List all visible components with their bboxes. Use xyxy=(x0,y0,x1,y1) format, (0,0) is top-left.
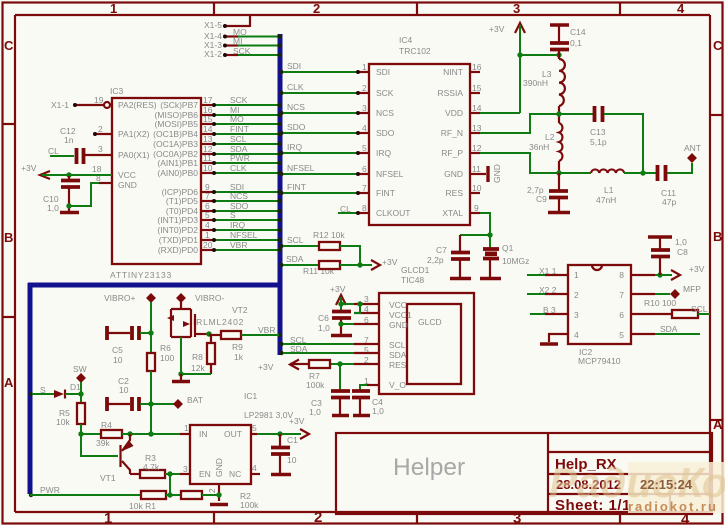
svg-text:390nH: 390nH xyxy=(523,78,548,88)
svg-text:17: 17 xyxy=(203,95,213,105)
svg-text:GND: GND xyxy=(214,458,224,477)
svg-text:FINT: FINT xyxy=(376,188,395,198)
svg-text:1,0: 1,0 xyxy=(318,323,330,333)
svg-text:S: S xyxy=(230,210,236,220)
svg-text:MO: MO xyxy=(230,114,244,124)
svg-text:0,1: 0,1 xyxy=(570,38,582,48)
svg-text:(AIN0)PB0: (AIN0)PB0 xyxy=(157,168,198,178)
svg-text:10: 10 xyxy=(119,385,129,395)
svg-text:EN: EN xyxy=(199,469,211,479)
svg-text:NFSEL: NFSEL xyxy=(376,169,404,179)
svg-text:FINT: FINT xyxy=(230,124,249,134)
svg-text:3: 3 xyxy=(513,510,521,525)
svg-text:3: 3 xyxy=(183,464,188,474)
svg-text:TRC102: TRC102 xyxy=(399,46,431,56)
svg-text:A: A xyxy=(713,417,723,432)
svg-text:2: 2 xyxy=(574,290,579,300)
svg-text:CLK: CLK xyxy=(230,163,247,173)
svg-text:SW: SW xyxy=(73,364,87,374)
svg-text:PA1(X2): PA1(X2) xyxy=(118,129,150,139)
svg-text:SCL: SCL xyxy=(389,340,406,350)
svg-text:(INT0)PD2: (INT0)PD2 xyxy=(157,225,198,235)
svg-text:VBR: VBR xyxy=(258,325,275,335)
svg-text:RF_N: RF_N xyxy=(441,128,463,138)
svg-text:C5: C5 xyxy=(112,345,123,355)
svg-text:NCS: NCS xyxy=(376,108,394,118)
svg-text:X2 2: X2 2 xyxy=(539,285,557,295)
svg-text:SDI: SDI xyxy=(287,61,301,71)
svg-text:TIC48: TIC48 xyxy=(401,275,424,285)
svg-text:L1: L1 xyxy=(604,185,614,195)
svg-text:10MGz: 10MGz xyxy=(502,256,529,266)
svg-text:BAT: BAT xyxy=(187,395,203,405)
svg-text:X1 1: X1 1 xyxy=(539,266,557,276)
svg-text:20: 20 xyxy=(203,240,213,250)
svg-text:3: 3 xyxy=(98,144,103,154)
svg-text:C13: C13 xyxy=(590,127,606,137)
svg-text:(SCk)PB7: (SCk)PB7 xyxy=(160,100,198,110)
svg-text:7: 7 xyxy=(362,183,367,193)
svg-text:(T1)PD5: (T1)PD5 xyxy=(166,196,198,206)
svg-text:Helper: Helper xyxy=(393,454,465,481)
svg-text:C14: C14 xyxy=(570,27,586,37)
svg-text:R4: R4 xyxy=(101,420,112,430)
svg-text:5: 5 xyxy=(252,423,257,433)
svg-text:VCC: VCC xyxy=(389,300,407,310)
svg-text:GLCD: GLCD xyxy=(418,317,442,327)
svg-text:3: 3 xyxy=(574,310,579,320)
svg-text:4: 4 xyxy=(677,1,685,16)
svg-text:SDA: SDA xyxy=(290,344,308,354)
svg-text:5,1p: 5,1p xyxy=(590,137,607,147)
svg-text:1: 1 xyxy=(574,270,579,280)
svg-text:R10 100: R10 100 xyxy=(644,298,676,308)
svg-text:39k: 39k xyxy=(96,438,110,448)
svg-text:PA0(X1): PA0(X1) xyxy=(118,150,150,160)
svg-text:2: 2 xyxy=(314,509,322,525)
svg-text:(TXD)PD1: (TXD)PD1 xyxy=(159,235,198,245)
svg-text:10: 10 xyxy=(203,163,213,173)
svg-text:14: 14 xyxy=(472,103,482,113)
svg-text:RSSIA: RSSIA xyxy=(437,88,463,98)
svg-text:X1-2: X1-2 xyxy=(204,49,222,59)
svg-text:19: 19 xyxy=(94,95,104,105)
svg-text:SCL: SCL xyxy=(691,304,708,314)
svg-text:SCK: SCK xyxy=(230,95,248,105)
svg-text:NINT: NINT xyxy=(443,67,463,77)
svg-text:6: 6 xyxy=(362,164,367,174)
svg-text:IRLML2402: IRLML2402 xyxy=(193,317,244,327)
svg-text:GND: GND xyxy=(444,169,463,179)
svg-text:X1-1: X1-1 xyxy=(51,100,69,110)
svg-text:VT2: VT2 xyxy=(232,305,248,315)
svg-text:+3V: +3V xyxy=(289,416,305,426)
svg-text:1: 1 xyxy=(205,230,210,240)
svg-text:SDO: SDO xyxy=(287,122,306,132)
svg-text:1: 1 xyxy=(110,1,117,16)
svg-text:GND: GND xyxy=(492,164,502,183)
svg-text:(RXD)PD0: (RXD)PD0 xyxy=(158,245,198,255)
svg-text:+3V: +3V xyxy=(258,362,274,372)
svg-text:8: 8 xyxy=(362,203,367,213)
svg-text:(AIN1)PB1: (AIN1)PB1 xyxy=(157,158,198,168)
svg-text:4: 4 xyxy=(362,123,367,133)
svg-text:100: 100 xyxy=(160,353,174,363)
svg-text:13: 13 xyxy=(203,134,213,144)
svg-text:VCC1: VCC1 xyxy=(389,310,412,320)
svg-text:+3V: +3V xyxy=(689,264,705,274)
svg-text:C7: C7 xyxy=(436,245,447,255)
svg-text:14: 14 xyxy=(203,124,213,134)
svg-text:C6: C6 xyxy=(318,313,329,323)
svg-text:11: 11 xyxy=(472,164,481,174)
svg-text:NCS: NCS xyxy=(287,102,305,112)
svg-text:13: 13 xyxy=(472,123,482,133)
svg-text:X1-5: X1-5 xyxy=(204,20,222,30)
svg-text:4,7k: 4,7k xyxy=(143,462,160,472)
svg-text:CL: CL xyxy=(48,146,59,156)
svg-text:C1: C1 xyxy=(287,435,298,445)
svg-text:47p: 47p xyxy=(662,197,676,207)
svg-text:1: 1 xyxy=(184,423,189,433)
svg-text:CLK: CLK xyxy=(287,82,304,92)
svg-text:9: 9 xyxy=(474,203,479,213)
svg-text:OUT: OUT xyxy=(224,429,242,439)
svg-text:4: 4 xyxy=(252,463,257,473)
svg-text:+3V: +3V xyxy=(382,257,398,267)
svg-text:C9: C9 xyxy=(536,194,547,204)
svg-text:RES: RES xyxy=(446,188,464,198)
svg-text:2: 2 xyxy=(207,488,217,493)
svg-text:VBR: VBR xyxy=(230,240,247,250)
svg-text:2: 2 xyxy=(362,83,367,93)
svg-text:SDA: SDA xyxy=(286,254,304,264)
svg-text:VT1: VT1 xyxy=(100,473,116,483)
svg-text:(OC1A)PB3: (OC1A)PB3 xyxy=(153,139,198,149)
svg-text:MCP79410: MCP79410 xyxy=(578,356,621,366)
svg-text:3: 3 xyxy=(364,294,369,304)
svg-text:C: C xyxy=(4,38,14,53)
svg-text:IC4: IC4 xyxy=(399,35,413,45)
svg-text:R12 10k: R12 10k xyxy=(313,230,345,240)
svg-text:36nH: 36nH xyxy=(529,142,549,152)
svg-text:12k: 12k xyxy=(191,363,205,373)
svg-text:+3V: +3V xyxy=(21,163,37,173)
svg-text:NC: NC xyxy=(229,469,241,479)
svg-text:(INT1)PD3: (INT1)PD3 xyxy=(157,215,198,225)
svg-text:IRQ: IRQ xyxy=(376,148,392,158)
svg-text:C8: C8 xyxy=(677,247,688,257)
svg-text:R9: R9 xyxy=(232,342,243,352)
svg-text:IC3: IC3 xyxy=(110,86,124,96)
svg-text:8: 8 xyxy=(619,270,624,280)
svg-text:SDI: SDI xyxy=(376,67,390,77)
svg-text:SDA: SDA xyxy=(660,324,678,334)
svg-text:VIBRO-: VIBRO- xyxy=(195,293,224,303)
svg-text:R6: R6 xyxy=(160,343,171,353)
svg-text:1,0: 1,0 xyxy=(372,406,384,416)
svg-text:10k R1: 10k R1 xyxy=(129,501,156,511)
svg-text:PWR: PWR xyxy=(40,485,60,495)
svg-text:SCL: SCL xyxy=(287,235,304,245)
svg-text:NCS: NCS xyxy=(230,191,248,201)
svg-text:(MOSI)PB5: (MOSI)PB5 xyxy=(155,119,199,129)
svg-text:4: 4 xyxy=(205,220,210,230)
svg-text:L2: L2 xyxy=(545,132,555,142)
svg-text:CL: CL xyxy=(340,204,351,214)
svg-text:SCL: SCL xyxy=(230,134,247,144)
svg-text:D1: D1 xyxy=(70,382,81,392)
svg-text:(OC1B)PB4: (OC1B)PB4 xyxy=(153,129,198,139)
svg-text:1: 1 xyxy=(362,62,367,72)
svg-text:7: 7 xyxy=(205,191,210,201)
svg-text:MFP: MFP xyxy=(683,284,701,294)
svg-text:100k: 100k xyxy=(306,380,325,390)
svg-text:1: 1 xyxy=(104,510,112,525)
svg-text:ANT: ANT xyxy=(684,143,701,153)
svg-text:VDD: VDD xyxy=(445,108,463,118)
svg-text:B: B xyxy=(713,229,722,244)
svg-text:5: 5 xyxy=(619,330,624,340)
svg-text:VIBRO+: VIBRO+ xyxy=(104,293,135,303)
svg-text:NFSEL: NFSEL xyxy=(230,230,258,240)
svg-text:NFSEL: NFSEL xyxy=(287,163,315,173)
svg-text:6: 6 xyxy=(619,310,624,320)
svg-text:10: 10 xyxy=(113,355,123,365)
svg-text:1,0: 1,0 xyxy=(309,407,321,417)
svg-text:10: 10 xyxy=(472,183,482,193)
svg-text:IRQ: IRQ xyxy=(287,142,303,152)
svg-text:B: B xyxy=(4,230,13,245)
svg-text:7: 7 xyxy=(619,290,624,300)
svg-text:radiokot.ru: radiokot.ru xyxy=(628,499,718,514)
svg-text:GND: GND xyxy=(389,320,408,330)
svg-text:5: 5 xyxy=(362,143,367,153)
svg-text:+3V: +3V xyxy=(330,284,346,294)
svg-text:SCK: SCK xyxy=(376,88,394,98)
svg-text:ATTINY23133: ATTINY23133 xyxy=(110,270,172,280)
svg-text:100k: 100k xyxy=(240,500,259,510)
svg-text:FINT: FINT xyxy=(287,182,306,192)
svg-text:15: 15 xyxy=(203,114,213,124)
svg-text:1n: 1n xyxy=(64,135,74,145)
svg-text:SDO: SDO xyxy=(376,128,395,138)
svg-text:SDA: SDA xyxy=(389,350,407,360)
svg-text:47nH: 47nH xyxy=(596,195,616,205)
svg-text:RES: RES xyxy=(389,360,407,370)
svg-text:RF_P: RF_P xyxy=(441,148,463,158)
svg-text:2: 2 xyxy=(98,124,103,134)
svg-text:2: 2 xyxy=(313,1,320,16)
svg-text:V_O: V_O xyxy=(389,380,406,390)
svg-text:IC1: IC1 xyxy=(244,391,258,401)
svg-text:IN: IN xyxy=(199,429,208,439)
svg-text:LP2981 3,0V: LP2981 3,0V xyxy=(244,410,293,420)
svg-text:+3V: +3V xyxy=(489,24,505,34)
svg-text:Q1: Q1 xyxy=(502,243,514,253)
svg-text:PWR: PWR xyxy=(230,153,250,163)
svg-text:15: 15 xyxy=(472,83,482,93)
svg-text:C: C xyxy=(713,38,723,53)
svg-text:22:15:24: 22:15:24 xyxy=(640,477,693,492)
svg-text:R8: R8 xyxy=(192,352,203,362)
svg-text:PA2(RES): PA2(RES) xyxy=(118,100,157,110)
svg-text:A: A xyxy=(4,375,14,390)
svg-text:VCC: VCC xyxy=(118,170,136,180)
svg-text:GND: GND xyxy=(118,180,137,190)
svg-text:3: 3 xyxy=(362,103,367,113)
svg-text:XTAL: XTAL xyxy=(442,208,463,218)
svg-text:12: 12 xyxy=(472,143,482,153)
svg-text:IRQ: IRQ xyxy=(230,220,246,230)
svg-text:4: 4 xyxy=(574,330,579,340)
svg-text:5: 5 xyxy=(205,210,210,220)
svg-text:11: 11 xyxy=(203,153,212,163)
svg-text:3: 3 xyxy=(513,1,520,16)
svg-text:10k: 10k xyxy=(56,417,70,427)
svg-text:1k: 1k xyxy=(234,352,244,362)
svg-text:GLCD1: GLCD1 xyxy=(401,265,430,275)
svg-text:2,2p: 2,2p xyxy=(427,255,444,265)
svg-text:1,0: 1,0 xyxy=(675,237,687,247)
svg-text:10: 10 xyxy=(287,455,297,465)
svg-text:CLKOUT: CLKOUT xyxy=(376,208,410,218)
svg-text:1,0: 1,0 xyxy=(47,203,59,213)
svg-text:16: 16 xyxy=(472,62,482,72)
svg-text:B 3: B 3 xyxy=(543,305,556,315)
